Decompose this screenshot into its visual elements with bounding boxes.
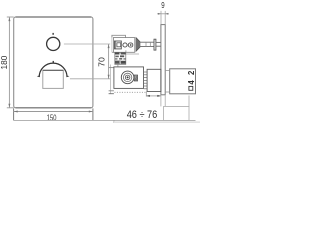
button mech box A inner line bbox=[115, 41, 117, 49]
handle square bbox=[43, 70, 64, 88]
button stem neck bbox=[156, 41, 161, 43]
dim 70 extension from button bbox=[64, 43, 110, 45]
dim 9 arrow right bbox=[165, 13, 168, 15]
button stem bottom bbox=[140, 46, 154, 48]
junction hatched block bbox=[115, 52, 126, 64]
side view wall plate bbox=[161, 25, 165, 95]
dim 150 arrow right bbox=[89, 111, 93, 113]
dim 150 left extension bbox=[13, 108, 15, 120]
table rule bottom bbox=[14, 119, 196, 121]
valve bracket foot bbox=[109, 93, 114, 95]
dim 70 arrow top bbox=[108, 44, 110, 48]
button mech rail top bbox=[112, 35, 126, 37]
arc end arrow right bbox=[67, 75, 70, 77]
cartridge circle outer bbox=[121, 71, 134, 84]
dim 180 top extension bbox=[7, 16, 14, 18]
button mech housing box bbox=[113, 38, 134, 53]
button mech box A bbox=[115, 41, 122, 49]
dim 180 dimension line bbox=[8, 17, 10, 108]
label square42 symbol bbox=[189, 86, 193, 90]
diverter button circle bbox=[47, 37, 60, 50]
plate top edge dark bbox=[16, 16, 92, 18]
dim 70 arrow bottom bbox=[108, 75, 110, 79]
svg-text:46 ÷ 76: 46 ÷ 76 bbox=[127, 109, 158, 121]
table cell box bbox=[164, 106, 189, 120]
button mech small circle bbox=[123, 43, 127, 47]
dim 180 bottom extension bbox=[7, 107, 14, 109]
button stem flange bbox=[154, 39, 156, 50]
valve bracket vertical bbox=[110, 65, 112, 95]
dim 150 dimension line bbox=[14, 111, 93, 113]
sleeve box bbox=[147, 69, 161, 91]
dim 9 dimension line bbox=[157, 13, 169, 15]
valve body box bbox=[114, 67, 144, 89]
dim 70 dimension line bbox=[108, 44, 110, 79]
depth arrow right bbox=[157, 95, 161, 97]
depth arrow left bbox=[146, 95, 150, 97]
dim 180 arrow top bbox=[8, 17, 10, 21]
arc apex tick bbox=[53, 61, 54, 63]
wall plate front view bbox=[14, 17, 93, 108]
dim 9 extension lines bbox=[160, 11, 162, 24]
hidden depth dotted line bbox=[114, 91, 147, 93]
handle neck bottom bbox=[165, 91, 170, 93]
button mech bracket vertical bbox=[111, 35, 113, 52]
handle side view box bbox=[170, 69, 196, 94]
handle neck top bbox=[165, 70, 170, 72]
cartridge circle inner bbox=[125, 75, 130, 80]
button mech oval dot bbox=[130, 44, 132, 46]
plate bottom edge dark bbox=[16, 107, 92, 109]
button mech rail bottom stub bbox=[112, 51, 114, 53]
arc end arrow left bbox=[37, 75, 40, 77]
table shaded band bbox=[114, 121, 200, 123]
cartridge stem hatch bbox=[134, 75, 137, 81]
table vertical above cell bbox=[188, 96, 190, 107]
valve bracket wing mid bbox=[109, 90, 114, 92]
handle square top edge dark bbox=[43, 69, 64, 71]
dim 9 arrow left bbox=[158, 13, 161, 15]
junction top line right bbox=[126, 53, 139, 55]
valve bracket wing top bbox=[109, 67, 114, 69]
plate extension right bbox=[164, 95, 166, 107]
plate extension left bbox=[160, 95, 162, 107]
depth extension vertical bbox=[145, 92, 147, 97]
svg-text:180: 180 bbox=[0, 55, 9, 69]
button mech oval nut bbox=[128, 43, 133, 47]
thread hatch zone bbox=[144, 72, 147, 89]
svg-text:70: 70 bbox=[96, 57, 106, 67]
depth dim line bbox=[146, 95, 161, 97]
button stem top bbox=[140, 41, 154, 43]
dim 180 arrow bottom bbox=[8, 104, 10, 108]
stem tick 1 bbox=[145, 42, 147, 46]
housing partition tick bbox=[125, 50, 127, 52]
table tick below rule bbox=[113, 120, 115, 123]
knurl hatch bbox=[136, 39, 138, 50]
dim 150 right extension bbox=[92, 108, 94, 120]
junction connector to body bbox=[117, 64, 119, 67]
svg-text:150: 150 bbox=[47, 113, 57, 123]
button index tick bbox=[52, 33, 54, 35]
dim 70 extension from handle bbox=[70, 78, 110, 80]
button mech knurl cone bbox=[136, 38, 140, 51]
handle rotation arc bbox=[39, 63, 67, 77]
dim 150 arrow left bbox=[14, 111, 18, 113]
svg-text:9: 9 bbox=[161, 0, 165, 10]
stem tick 2 bbox=[149, 42, 151, 46]
button mech box A inner rect bbox=[117, 43, 121, 47]
cartridge circle dot bbox=[127, 76, 129, 78]
button mech connector bbox=[127, 44, 128, 46]
cartridge circle mid bbox=[123, 73, 131, 81]
